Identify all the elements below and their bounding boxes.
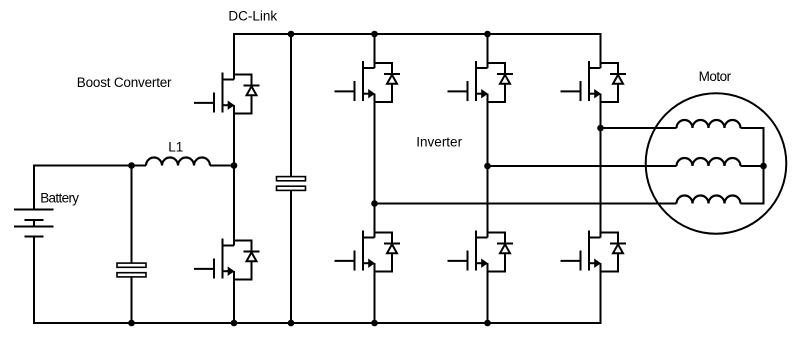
inverter leg2 source wire xyxy=(487,263,489,323)
junction dot phase A tap xyxy=(597,125,604,132)
mosfet Q1 boost high-side xyxy=(194,73,260,114)
svg-text:Boost Converter: Boost Converter xyxy=(77,75,172,90)
input capacitor bottom lead wire xyxy=(131,276,133,323)
boost low-side source wire xyxy=(233,271,235,323)
motor winding right wire B xyxy=(741,165,764,167)
phase C wire xyxy=(375,203,677,205)
phase A wire xyxy=(601,127,677,129)
mosfet Q5 inverter leg2 high xyxy=(448,61,514,102)
mosfet Q3 inverter leg1 high xyxy=(335,61,401,102)
inverter leg1 mid wire xyxy=(374,94,376,238)
junction dot boost midpoint xyxy=(231,162,238,169)
mosfet Q7 inverter leg3 high xyxy=(561,61,627,102)
junction dot top bus at leg1 xyxy=(371,31,378,38)
battery plate short bottom xyxy=(25,236,44,238)
battery positive lead wire xyxy=(34,166,146,210)
inverter leg3 mid wire xyxy=(600,94,602,238)
top DC bus wire xyxy=(234,34,601,80)
boost low-side drain wire xyxy=(233,166,235,246)
input capacitor top lead wire xyxy=(131,166,133,264)
battery plate long top xyxy=(14,209,54,211)
dc-link capacitor bottom lead wire xyxy=(290,190,292,323)
motor winding A xyxy=(677,120,741,128)
svg-text:DC-Link: DC-Link xyxy=(228,9,277,24)
svg-text:Battery: Battery xyxy=(40,190,79,205)
junction dot bottom bus at leg1 xyxy=(371,320,378,327)
svg-text:L1: L1 xyxy=(168,139,183,154)
junction dot node L1 left xyxy=(128,162,135,169)
svg-text:Motor: Motor xyxy=(699,69,732,84)
dc-link capacitor top lead wire xyxy=(290,34,292,177)
inverter leg2 drain wire xyxy=(487,34,489,68)
motor winding B xyxy=(677,158,741,166)
capacitor C1 input xyxy=(117,263,146,277)
capacitor C2 dc-link xyxy=(277,177,306,191)
junction dot motor star point xyxy=(760,163,767,170)
wire L1 to boost midpoint xyxy=(210,165,234,167)
junction dot phase B tap xyxy=(484,163,491,170)
junction dot top bus at leg2 xyxy=(484,31,491,38)
inverter leg1 source wire xyxy=(374,263,376,323)
battery plate long bottom xyxy=(14,226,54,228)
junction dot bottom bus at dc-link cap xyxy=(288,320,295,327)
phase B wire xyxy=(488,165,677,167)
junction dot phase C tap xyxy=(371,200,378,207)
motor stator circle xyxy=(646,93,787,234)
motor star point wire xyxy=(741,128,764,204)
inverter leg1 drain wire xyxy=(374,34,376,68)
mosfet Q4 inverter leg1 low xyxy=(335,231,401,272)
junction dot bottom bus at input cap xyxy=(128,320,135,327)
inductor L1 xyxy=(146,158,210,166)
battery inner link xyxy=(33,220,35,227)
mosfet Q2 boost low-side xyxy=(194,239,260,280)
junction dot bottom bus at leg2 xyxy=(484,320,491,327)
mosfet Q6 inverter leg2 low xyxy=(448,231,514,272)
svg-text:Inverter: Inverter xyxy=(416,134,462,149)
motor winding C xyxy=(677,196,741,204)
junction dot bottom bus at boost xyxy=(231,320,238,327)
boost high-side source wire xyxy=(233,105,235,165)
junction dot top bus at dc-link cap xyxy=(288,31,295,38)
battery plate short xyxy=(25,219,44,221)
inverter leg2 mid wire xyxy=(487,94,489,238)
bottom bus wire xyxy=(34,237,601,324)
mosfet Q8 inverter leg3 low xyxy=(561,231,627,272)
battery B1 xyxy=(14,210,54,237)
